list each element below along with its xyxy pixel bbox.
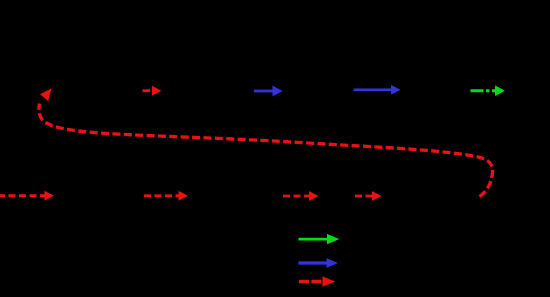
wire: red dashed arrow L3 (bottom row, box6 to box7) [283, 191, 319, 201]
legend: green solid arrow sample [299, 234, 340, 244]
wire: blue solid arrow A3 (top row, box3 to box4) [354, 85, 401, 95]
wire: red dashed arrow A1 (top row, box1 to box2) [143, 86, 162, 96]
wire: green dash-dot arrow A4 (top row, box4 to output) [471, 85, 506, 96]
wire: red dashed arrow L4 (bottom row, box7 to box8) [355, 191, 382, 201]
wire: big red dashed feedback curve from lower-right box back to upper-left box [39, 89, 493, 197]
wire: red dashed arrow L1 (bottom row, from left edge into box5) [0, 191, 54, 201]
wire: red dashed arrow L2 (bottom row, box5 to box6) [144, 191, 188, 201]
legend: red dashed arrow sample [299, 276, 335, 286]
wire: blue solid arrow A2 (top row, box2 to box3) [254, 86, 283, 97]
legend: blue solid arrow sample [299, 258, 339, 268]
